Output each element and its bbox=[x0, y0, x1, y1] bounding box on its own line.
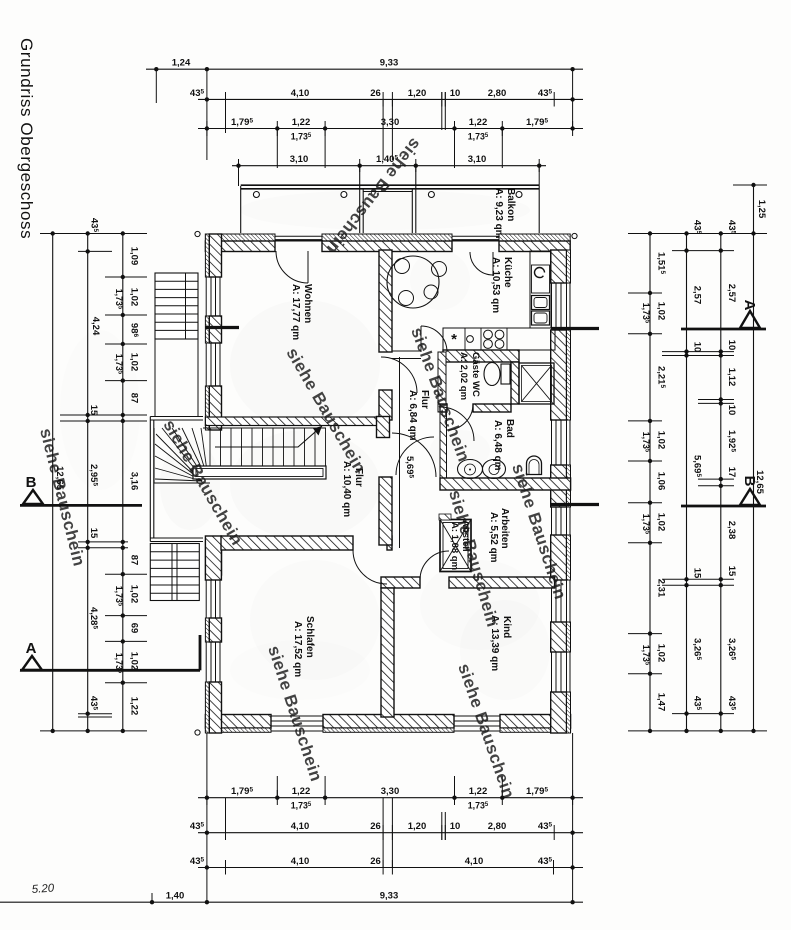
section marker B right bbox=[740, 489, 760, 505]
svg-text:15: 15 bbox=[88, 405, 99, 416]
window bottom right frame bbox=[454, 715, 500, 717]
wall bottom exterior bbox=[205, 715, 271, 729]
svg-text:15: 15 bbox=[726, 566, 737, 577]
svg-text:Wohnen: Wohnen bbox=[302, 284, 313, 323]
svg-text:A: 5,52 qm: A: 5,52 qm bbox=[488, 512, 499, 563]
section marker B left bbox=[23, 490, 43, 504]
svg-text:2,80: 2,80 bbox=[488, 88, 507, 99]
svg-text:1,02: 1,02 bbox=[656, 431, 667, 450]
section stub right A bbox=[551, 327, 599, 330]
svg-text:10: 10 bbox=[726, 405, 737, 416]
balcony door Kueche frame bbox=[452, 235, 499, 237]
svg-text:1,02: 1,02 bbox=[129, 353, 140, 372]
kitchen chairs bbox=[432, 262, 447, 277]
svg-text:2,31: 2,31 bbox=[656, 579, 667, 598]
scan shading bbox=[230, 300, 380, 430]
section marker A left bbox=[22, 656, 42, 670]
stair direction arrow bbox=[215, 426, 322, 447]
wall WC west bbox=[438, 352, 446, 412]
door lower Flur arc bbox=[392, 433, 436, 477]
door Wohnen balcony arc bbox=[276, 251, 308, 283]
wall left exterior bbox=[205, 234, 209, 277]
svg-text:A: 2,02 qm: A: 2,02 qm bbox=[458, 352, 469, 400]
dimension chain top overall 1,24 / 9,33 bbox=[146, 68, 583, 70]
door Kueche balcony arc bbox=[470, 252, 493, 275]
svg-text:10: 10 bbox=[450, 821, 461, 832]
svg-text:69: 69 bbox=[129, 623, 140, 634]
svg-text:A: 6,84 qm: A: 6,84 qm bbox=[407, 390, 418, 441]
svg-text:1,12: 1,12 bbox=[726, 368, 737, 387]
svg-text:10: 10 bbox=[450, 88, 461, 99]
svg-text:1,22: 1,22 bbox=[469, 117, 488, 128]
wall Wohnen-Flur vertical pier bbox=[379, 390, 392, 420]
window right bad frame bbox=[551, 420, 553, 465]
shower cabin bbox=[519, 363, 554, 404]
svg-text:10: 10 bbox=[692, 342, 703, 353]
wall Bad south horizontal bbox=[440, 478, 571, 490]
svg-text:1,22: 1,22 bbox=[469, 786, 488, 797]
svg-text:1,09: 1,09 bbox=[129, 247, 140, 266]
Bad washbasin 2 bbox=[483, 460, 506, 479]
dimension chain bottom second 43/4,10/26/1,20/10/2,80/43 bbox=[198, 832, 583, 834]
svg-text:1,20: 1,20 bbox=[408, 88, 427, 99]
svg-text:B: B bbox=[26, 474, 37, 491]
svg-text:1,02: 1,02 bbox=[129, 585, 140, 604]
stairwell bumpout walls bbox=[150, 416, 203, 418]
svg-text:1,02: 1,02 bbox=[129, 652, 140, 671]
kitchen cooker star box bbox=[443, 328, 465, 350]
svg-text:1,22: 1,22 bbox=[129, 697, 140, 716]
svg-text:2,80: 2,80 bbox=[488, 821, 507, 832]
corner survey circles bbox=[195, 231, 200, 236]
wall Wohnen-Kueche vertical bbox=[379, 250, 392, 352]
wall WC south with door gap bbox=[440, 404, 447, 412]
dimension chain left overall 12,65 bbox=[52, 234, 54, 731]
wall kitchen south bbox=[392, 350, 421, 352]
svg-text:17: 17 bbox=[726, 467, 737, 478]
svg-text:Bad: Bad bbox=[504, 419, 515, 438]
svg-text:87: 87 bbox=[129, 393, 140, 404]
svg-text:Balkon: Balkon bbox=[505, 188, 516, 221]
svg-text:Gäste WC: Gäste WC bbox=[470, 352, 481, 397]
svg-text:1,25: 1,25 bbox=[756, 200, 767, 219]
balcony posts bbox=[253, 192, 259, 198]
window right kind lower frame bbox=[551, 652, 553, 692]
wall Wohnen south horizontal bbox=[205, 417, 389, 426]
exterior stair upper flight bbox=[155, 273, 198, 339]
door Schlafen arc bbox=[353, 550, 387, 584]
right tick rows bbox=[733, 184, 767, 186]
svg-text:Kind: Kind bbox=[501, 616, 512, 638]
svg-text:9,33: 9,33 bbox=[380, 891, 399, 902]
svg-text:1,22: 1,22 bbox=[292, 117, 311, 128]
svg-text:1,22: 1,22 bbox=[292, 786, 311, 797]
svg-text:26: 26 bbox=[370, 856, 381, 867]
corridor partition line bbox=[399, 357, 401, 548]
svg-text:1,24: 1,24 bbox=[172, 58, 191, 69]
svg-text:A: 9,23 qm: A: 9,23 qm bbox=[493, 188, 504, 239]
svg-text:*: * bbox=[451, 331, 457, 348]
svg-text:26: 26 bbox=[370, 821, 381, 832]
svg-text:2,57: 2,57 bbox=[726, 284, 737, 303]
Bad toilet bbox=[527, 456, 542, 474]
dimension chain bottom first 1,79/1,22/3,30/1,22/1,79 bbox=[198, 797, 583, 799]
wall top exterior bbox=[205, 234, 275, 241]
door WC arc bbox=[447, 404, 473, 430]
wall WC-Bad east bbox=[511, 362, 519, 404]
door Wohnen from upper Flur arc bbox=[381, 357, 417, 393]
stair lower exterior flight bbox=[150, 544, 199, 601]
svg-text:4,10: 4,10 bbox=[465, 856, 484, 867]
left tick rows bbox=[40, 233, 147, 235]
svg-text:1,02: 1,02 bbox=[656, 302, 667, 321]
svg-text:Grundriss Obergeschoss: Grundriss Obergeschoss bbox=[17, 38, 36, 239]
wall central vertical at stair bbox=[377, 417, 390, 438]
stair straight flight treads bbox=[203, 427, 326, 429]
svg-text:15: 15 bbox=[692, 568, 703, 579]
wall Bad west thin bbox=[440, 412, 447, 478]
balcony railing bbox=[241, 184, 540, 186]
svg-text:9,33: 9,33 bbox=[380, 58, 399, 69]
svg-text:2,38: 2,38 bbox=[726, 521, 737, 540]
kitchen hob circles bbox=[481, 328, 507, 350]
dimension chain right R2 bbox=[686, 234, 688, 731]
door Kind arc bbox=[420, 551, 449, 580]
section stub right B bbox=[551, 503, 599, 506]
svg-text:2,57: 2,57 bbox=[692, 286, 703, 305]
svg-text:4,10: 4,10 bbox=[291, 856, 310, 867]
svg-text:10: 10 bbox=[726, 340, 737, 351]
svg-text:Arbeiten: Arbeiten bbox=[499, 508, 510, 549]
door Bad arc into Bad bbox=[440, 407, 474, 441]
svg-text:1,02: 1,02 bbox=[656, 644, 667, 663]
svg-text:4,10: 4,10 bbox=[291, 88, 310, 99]
svg-text:1,02: 1,02 bbox=[656, 513, 667, 532]
kitchen dining table bbox=[387, 256, 439, 308]
balcony door Wohnen frame bbox=[275, 235, 322, 237]
dimension chain right R1 bbox=[649, 234, 651, 731]
stair handrail bbox=[193, 466, 326, 479]
svg-text:5.20: 5.20 bbox=[31, 882, 55, 896]
Bad washbasin 1 bbox=[458, 460, 483, 479]
wall stairhall south horizontal bbox=[205, 536, 221, 580]
svg-text:4,10: 4,10 bbox=[291, 821, 310, 832]
kitchen double basin bbox=[532, 296, 550, 310]
svg-text:A: 6,48 qm: A: 6,48 qm bbox=[492, 420, 503, 471]
svg-text:1,20: 1,20 bbox=[408, 821, 427, 832]
svg-text:A: 17,52 qm: A: 17,52 qm bbox=[292, 621, 303, 677]
door Bad arc into Flur bbox=[396, 437, 434, 475]
window left bottom frame bbox=[205, 642, 207, 682]
kitchen counter east bbox=[530, 251, 551, 328]
dimension chain right R3 bbox=[720, 234, 722, 731]
svg-text:3,10: 3,10 bbox=[290, 154, 309, 165]
window right kitchen frame bbox=[551, 283, 553, 330]
svg-text:3,10: 3,10 bbox=[468, 154, 487, 165]
svg-text:1,47: 1,47 bbox=[656, 693, 667, 712]
dimension chain left second bbox=[87, 234, 89, 731]
door Kueche from Flur arc bbox=[421, 326, 447, 352]
balcony bay dividers bbox=[359, 166, 361, 233]
dimension chain balcony 3,10/1,40/3,10 bbox=[232, 165, 546, 167]
wall right exterior bbox=[551, 250, 567, 283]
svg-text:Schlafen: Schlafen bbox=[304, 616, 315, 658]
svg-text:A: 17,77 qm: A: 17,77 qm bbox=[290, 284, 301, 340]
svg-text:1,40: 1,40 bbox=[166, 891, 185, 902]
svg-text:26: 26 bbox=[370, 88, 381, 99]
wall Schlafen-Kind vertical bbox=[381, 588, 394, 717]
svg-text:87: 87 bbox=[129, 555, 140, 566]
kitchen counter south bbox=[443, 328, 555, 350]
dimension chain left third bbox=[122, 234, 124, 731]
WC toilet bbox=[484, 363, 500, 386]
svg-text:3,30: 3,30 bbox=[381, 117, 400, 128]
svg-text:A: A bbox=[26, 640, 37, 657]
svg-text:A: A bbox=[741, 300, 758, 311]
svg-text:12,65: 12,65 bbox=[54, 466, 65, 490]
svg-text:Flur: Flur bbox=[419, 390, 430, 409]
window right arbeiten frame bbox=[551, 507, 553, 535]
dimension chain right overall R4 bbox=[753, 185, 755, 731]
left annex shaft bbox=[154, 339, 156, 416]
svg-text:3,30: 3,30 bbox=[381, 786, 400, 797]
window right kind upper frame bbox=[551, 580, 553, 622]
svg-text:Küche: Küche bbox=[502, 257, 513, 288]
dimension chain top third 1,79/1,22/3,30/1,22/1,79 bbox=[198, 128, 583, 130]
dimension chain top second 43/4,10/26/1,20/10/2,80/43 bbox=[198, 98, 583, 100]
svg-text:A: 10,53 qm: A: 10,53 qm bbox=[490, 257, 501, 313]
svg-text:15: 15 bbox=[88, 528, 99, 539]
section marker A right bbox=[740, 311, 760, 328]
window left lower frame bbox=[205, 575, 207, 618]
svg-text:12,65: 12,65 bbox=[754, 470, 765, 494]
kitchen sink symbol bbox=[532, 265, 550, 293]
window left upper frame bbox=[205, 277, 207, 316]
Abstell closet box bbox=[440, 520, 471, 572]
window bottom left frame bbox=[271, 715, 323, 717]
dimension chain bottom overall 1,40/9,33 bbox=[0, 901, 583, 903]
svg-text:3,16: 3,16 bbox=[129, 472, 140, 491]
svg-text:1,06: 1,06 bbox=[656, 472, 667, 491]
dimension chain bottom third 43/4,10/26/4,10/43 bbox=[198, 867, 583, 869]
svg-text:4,24: 4,24 bbox=[90, 317, 101, 336]
stair winders bbox=[154, 428, 210, 483]
section stub left A bbox=[205, 326, 239, 329]
window left mid frame bbox=[205, 343, 207, 386]
wall Kind north horizontal bbox=[381, 577, 420, 588]
svg-text:1,02: 1,02 bbox=[129, 288, 140, 307]
